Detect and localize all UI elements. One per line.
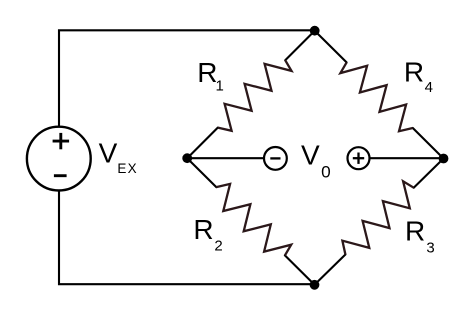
svg-text:EX: EX [117,161,137,176]
svg-text:R: R [404,57,424,88]
svg-text:V: V [99,138,118,169]
svg-text:R: R [405,216,425,247]
svg-text:R: R [197,57,217,88]
svg-text:2: 2 [214,238,222,255]
svg-text:R: R [193,214,213,245]
svg-text:0: 0 [321,162,331,181]
svg-text:3: 3 [426,240,434,257]
svg-text:V: V [301,140,320,171]
svg-text:1: 1 [216,77,224,94]
svg-text:4: 4 [425,79,433,96]
